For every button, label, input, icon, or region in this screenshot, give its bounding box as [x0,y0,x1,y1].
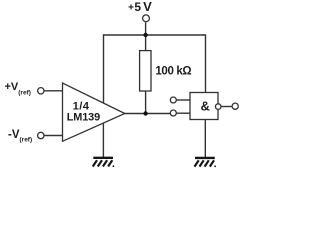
node AND lower input terminal [170,110,176,116]
node -Vref input terminal [38,132,44,138]
svg-text:-V(ref): -V(ref) [8,129,32,144]
svg-text:V: V [143,0,152,14]
svg-text:+V(ref): +V(ref) [5,81,31,97]
wire -Vref to comparator input [44,135,62,137]
node AND output bubble [215,104,221,110]
wire AND output [221,106,232,108]
wire comparator output to AND lower input [125,113,171,115]
svg-text:LM139: LM139 [67,111,100,123]
ground symbol right [195,158,215,167]
wire +Vref to comparator input [44,90,62,92]
ground hatch fragment dot left [113,165,115,167]
svg-text:100 kΩ: 100 kΩ [155,66,191,78]
wire resistor top lead [145,35,147,51]
wire comparator V- pin to ground [102,123,104,157]
junction dot at comparator output node [143,111,147,115]
resistor R1 100k body [140,51,151,91]
wire +5V terminal to bus [145,22,147,35]
svg-text:5: 5 [134,0,141,14]
wire bus right drop to AND gate top [205,34,207,92]
node +Vref input terminal [38,88,44,94]
node output terminal [232,103,238,109]
junction dot at +5V bus and resistor [143,33,147,37]
wire resistor bottom lead to output node [145,91,147,114]
wire AND gate bottom to ground [204,120,206,158]
wire lower input stub [176,112,190,114]
gate U2 AND box [190,93,218,120]
ground symbol left [93,158,113,167]
node +5V supply terminal [143,15,150,22]
ground hatch fragment dot right [214,165,216,167]
node open AND input terminal [170,97,176,103]
wire bus left drop to comparator V+ pin [103,34,105,103]
wire +5V bus horizontal [104,34,206,36]
wire open input stub [176,99,190,101]
op-amp U1 LM139 triangle [63,83,125,141]
svg-text:+: + [128,2,134,13]
svg-text:&: & [201,98,210,113]
